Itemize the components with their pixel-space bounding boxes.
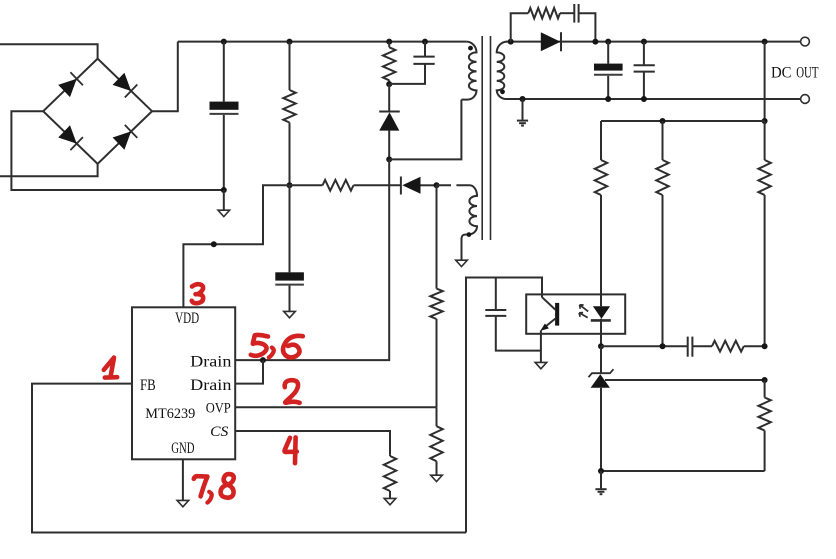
node TL431 anode / ground — [598, 468, 604, 474]
transformer T1 primary winding — [461, 42, 476, 100]
capacitor C8 (compensation) — [688, 337, 712, 357]
terminal DC OUT - — [801, 95, 810, 104]
label OVP (pin name) — [206, 400, 231, 416]
wire divider top rail — [601, 120, 765, 122]
optocoupler U2 phototransistor — [540, 297, 559, 362]
wire Drain pins to drain node — [235, 159, 389, 360]
diode D7 (output rectifier) — [541, 32, 561, 51]
wire secondary top rail — [506, 41, 801, 43]
ground (secondary, TL431) — [595, 471, 606, 494]
ground (primary, IC GND) — [177, 500, 189, 506]
capacitor C2 (VDD bypass) — [275, 185, 304, 311]
svg-text:VDD: VDD — [175, 310, 199, 327]
resistor R5 (OVP upper) — [430, 185, 442, 407]
wire CS pin — [235, 431, 390, 454]
node on VDD wire — [211, 241, 217, 247]
resistor R10 (divider upper) — [758, 121, 770, 346]
wire comp net — [601, 345, 688, 347]
capacitor C7 (output film) — [634, 42, 655, 99]
node bottom rail / ground — [520, 96, 526, 102]
annotation pin 1 (red) — [104, 358, 117, 378]
phase dot auxiliary — [467, 232, 472, 237]
wire VDD net to pin 3 — [183, 185, 289, 307]
resistor R3 (clamp) — [383, 42, 395, 85]
optocoupler light arrows — [579, 305, 588, 318]
node bottom rail / C7 — [641, 96, 647, 102]
label CS (pin name) — [210, 424, 229, 440]
wire opto collector to FB net — [466, 278, 542, 533]
svg-text:Drain: Drain — [190, 377, 231, 394]
optocoupler U2 LED — [591, 306, 611, 346]
wire bridge positive to top rail — [152, 42, 178, 112]
ground (primary, aux winding) — [456, 260, 468, 266]
label GND (pin name) — [171, 440, 194, 457]
wire AC input line 2 — [0, 164, 98, 177]
node top rail / R3 — [386, 39, 392, 45]
resistor R7 (snubber) — [511, 8, 560, 42]
wire Drain pin 2 — [235, 360, 263, 384]
resistor R4 (CS sense) — [384, 454, 396, 498]
terminal DC OUT + — [801, 37, 810, 46]
diode D6 (clamp, points up) — [379, 84, 400, 159]
wire bridge diamond — [43, 59, 152, 164]
wire FB bottom rail — [32, 384, 466, 533]
svg-text:MT6239: MT6239 — [145, 406, 195, 422]
node bottom rail / C6 — [605, 96, 611, 102]
wire OVP pin — [235, 406, 436, 408]
svg-text:CS: CS — [210, 424, 229, 440]
capacitor C5 (snubber) — [560, 4, 595, 42]
wire secondary bottom rail — [506, 98, 801, 100]
diode D1 (bridge top-left) — [58, 72, 83, 97]
wire AC input line 1 — [0, 44, 98, 58]
diode D4 (bridge bottom-right) — [113, 125, 138, 150]
node top rail / C1 — [221, 39, 227, 45]
label MT6239 (part number) — [145, 406, 195, 422]
ground (primary, C2) — [284, 311, 296, 317]
node divider feed — [762, 118, 768, 124]
capacitor C4 (FB filter) — [485, 278, 541, 351]
wire divider bottom — [601, 470, 765, 472]
resistor R1 (startup, top rail to VDD node) — [283, 42, 295, 186]
label DC OUT — [771, 64, 819, 81]
ground (secondary, output) — [517, 99, 528, 126]
node opto LED cathode — [598, 343, 604, 349]
phase dot secondary — [500, 89, 505, 94]
node output diode cathode — [592, 39, 598, 45]
capacitor C3 (clamp) — [389, 42, 435, 84]
ground (primary, C1) — [218, 190, 230, 217]
wire bridge negative to ground rail — [11, 111, 223, 190]
node output rail / C7 — [641, 39, 647, 45]
annotation pin 5,6 (red) — [251, 335, 303, 358]
wire TL431 ref — [605, 379, 765, 381]
svg-text:OUT: OUT — [796, 64, 818, 81]
annotation pin 7,8 (red) — [194, 474, 234, 502]
wire primary top rail — [178, 41, 467, 43]
ground (primary, opto emitter) — [535, 362, 547, 368]
wire output to divider — [764, 42, 766, 121]
annotation pin 4 (red) — [285, 437, 297, 463]
resistor R2 (VDD series) — [290, 180, 401, 191]
transformer T1 core — [482, 36, 490, 240]
node divider / R8b — [660, 118, 666, 124]
svg-text:OVP: OVP — [206, 400, 231, 416]
node drain / primary bottom — [386, 156, 392, 162]
node aux winding / D5 / OVP chain — [434, 182, 440, 188]
node comp / divider — [762, 343, 768, 349]
resistor R8 (opto LED series) — [595, 121, 607, 306]
capacitor C1 (bulk electrolytic) — [210, 42, 239, 190]
svg-text:Drain: Drain — [190, 353, 231, 370]
annotation pin 2 (red) — [285, 380, 300, 403]
svg-text:FB: FB — [140, 377, 156, 394]
node top rail / C3 — [422, 39, 428, 45]
ground (primary, CS resistor) — [384, 498, 396, 504]
label Drain 2 (pin name) — [190, 377, 231, 394]
diode D3 (bridge bottom-left) — [58, 125, 83, 150]
wire primary bottom to drain node — [389, 100, 461, 160]
transformer T1 auxiliary winding — [437, 185, 478, 260]
resistor R11 (compensation) — [712, 341, 765, 352]
node C1 / ground rail — [221, 187, 227, 193]
node output rail / divider feed — [762, 39, 768, 45]
diode D5 (aux rectifier, points left) — [401, 177, 437, 195]
svg-text:GND: GND — [171, 440, 194, 457]
resistor R9 (opto bias) — [656, 121, 668, 346]
transformer T1 secondary winding — [497, 42, 507, 99]
node VDD supply — [287, 182, 293, 188]
node secondary top — [508, 39, 514, 45]
svg-text:DC: DC — [771, 64, 792, 81]
shunt regulator U3 TL431 (zener symbol) — [589, 346, 614, 471]
ground (primary, OVP) — [431, 475, 443, 481]
node drain pins — [260, 357, 266, 363]
label VDD (pin name) — [175, 310, 199, 327]
optocoupler U2 body — [526, 294, 625, 333]
wire GND pin — [182, 459, 184, 500]
annotation pin 3 (red) — [192, 284, 203, 303]
node output rail / C6 — [605, 39, 611, 45]
label Drain (pin name) — [190, 353, 231, 370]
resistor R12 (divider lower) — [758, 380, 770, 471]
phase dot primary — [468, 46, 473, 51]
node comp / R9 bottom — [660, 343, 666, 349]
node clamp — [386, 81, 392, 87]
node top rail / R1 — [287, 39, 293, 45]
capacitor C6 (output electrolytic) — [594, 42, 623, 99]
resistor R6 (OVP lower) — [430, 407, 442, 475]
node divider ref — [762, 377, 768, 383]
label FB (pin name) — [140, 377, 156, 394]
IC U1 MT6239 body — [132, 307, 235, 459]
diode D2 (bridge top-right) — [113, 73, 138, 98]
